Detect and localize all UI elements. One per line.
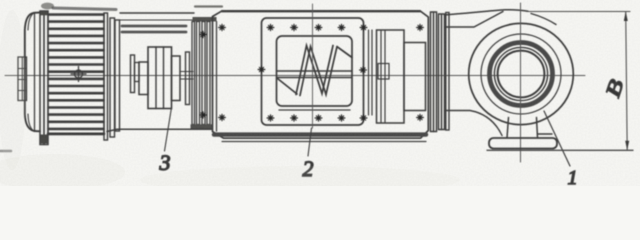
screw core lines	[278, 71, 352, 78]
background paper	[0, 0, 640, 186]
pump vertical centerline	[520, 3, 522, 162]
adapter flange top cap	[193, 17, 217, 22]
paper grain noise	[0, 0, 640, 186]
inspection window	[277, 36, 353, 106]
coupling guard top	[119, 13, 194, 32]
screw flight zigzag	[278, 46, 353, 96]
main horizontal centerline	[5, 75, 585, 77]
scan smudges top edge	[41, 3, 222, 10]
motor eyebolt cross	[71, 67, 86, 82]
motor finned body	[48, 15, 104, 135]
coupling guard bottom rail	[107, 129, 212, 131]
dimension line B	[624, 12, 629, 151]
window inner bottom line	[279, 109, 350, 111]
coupling disc block	[148, 47, 172, 109]
input shaft lines	[180, 72, 193, 80]
adapter flange bars	[192, 22, 210, 125]
scan gray washes	[0, 10, 460, 194]
housing outline	[213, 11, 429, 141]
adapter bolt bottom	[200, 112, 207, 118]
input shaft collar	[186, 52, 190, 105]
adapter bolt top	[200, 31, 207, 37]
casing neck top lines	[445, 10, 557, 27]
bottom extension line	[487, 149, 633, 151]
pump casing circles	[469, 23, 574, 124]
housing corner bolts	[219, 24, 424, 120]
motor rear ring flange	[40, 11, 48, 145]
casing neck bottom lines	[445, 111, 503, 136]
leader line part 2	[308, 128, 312, 156]
inspection cover plate	[262, 18, 373, 125]
coupling hub right	[172, 56, 181, 101]
motor shaft step	[135, 63, 140, 82]
top extension line	[527, 11, 630, 13]
motor shaft bearing boss	[131, 55, 135, 93]
rear bearing step	[404, 43, 426, 111]
adapter flange bottom cap	[191, 124, 213, 128]
motor front flange bars	[104, 13, 120, 140]
pump foot	[489, 118, 557, 149]
rear bearing block	[377, 30, 405, 123]
leader line part 1	[544, 111, 570, 166]
motor rear dome cap	[25, 13, 40, 132]
pump flange bars	[431, 12, 450, 132]
motor rear shaft stub	[18, 57, 27, 101]
window centerline	[312, 4, 314, 128]
cover plate bolts	[258, 24, 367, 121]
coupling hub left	[139, 62, 148, 95]
leader line part 3	[165, 108, 172, 152]
scan smudge bottom left	[0, 150, 11, 153]
